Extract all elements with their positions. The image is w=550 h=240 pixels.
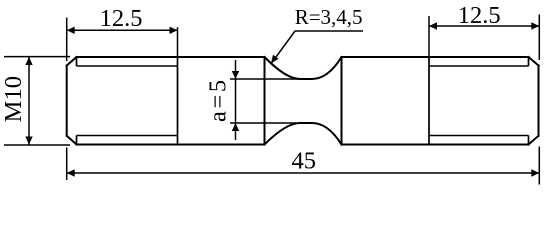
thread root lines — [77, 66, 529, 136]
wire top edge left of neck — [77, 56, 265, 58]
left top chamfer — [67, 57, 77, 66]
arrow 12.5 right-left — [429, 22, 437, 29]
left end face — [66, 66, 68, 136]
left chamfer edge bottom — [76, 136, 78, 145]
svg-text:12.5: 12.5 — [100, 5, 143, 32]
arrow 45 left — [67, 169, 75, 176]
neck right shoulder line — [341, 57, 343, 145]
neck left shoulder line — [264, 57, 266, 145]
wire top edge right of neck — [342, 56, 529, 58]
wire bottom edge right of neck — [342, 144, 529, 146]
right end face — [538, 66, 540, 136]
leader shelf under R text — [295, 30, 363, 32]
a=5 ext tick top — [230, 78, 300, 80]
svg-text:12.5: 12.5 — [458, 2, 501, 29]
a=5 ext tick bottom — [230, 122, 300, 124]
M10 ext line bottom — [4, 144, 70, 146]
stud body outline — [67, 57, 539, 145]
M10 dim line — [28, 57, 30, 145]
arrow 12.5 left-left — [67, 27, 75, 34]
dimension and extension lines — [4, 15, 539, 185]
leader arrowhead R — [271, 55, 279, 64]
leader line R — [272, 31, 295, 63]
45 ext line left — [66, 148, 68, 181]
right thread root top — [429, 65, 529, 67]
M10 ext line top — [4, 56, 70, 58]
right chamfer edge top — [528, 57, 530, 66]
45 ext line right — [538, 147, 540, 185]
wire bottom edge left of neck — [77, 144, 265, 146]
dim line 12.5 left — [67, 29, 178, 31]
neck top arc — [265, 57, 342, 79]
arrow M10 top — [25, 57, 32, 65]
arrow 12.5 right-right — [531, 22, 539, 29]
left bottom chamfer — [67, 136, 77, 145]
arrowheads — [25, 22, 539, 176]
left thread root top — [77, 65, 178, 67]
right bottom chamfer — [529, 136, 539, 145]
ext line left tip up — [66, 18, 68, 61]
left thread runout line — [177, 57, 179, 145]
left thread root bottom — [77, 135, 178, 137]
ext line right thread boundary up — [428, 16, 430, 57]
right top chamfer — [529, 57, 539, 66]
right chamfer edge bottom — [528, 136, 530, 145]
svg-text:R=3,4,5: R=3,4,5 — [295, 5, 363, 29]
arrow a=5 top (points down) — [232, 71, 239, 79]
svg-text:M10: M10 — [0, 76, 27, 122]
ext line left thread boundary up — [177, 27, 179, 57]
dim line 12.5 right — [429, 25, 539, 27]
svg-text:45: 45 — [291, 148, 316, 175]
right thread root bottom — [429, 135, 529, 137]
arrow a=5 bottom (points up) — [232, 123, 239, 131]
arrow 12.5 left-right — [170, 27, 178, 34]
neck bottom arc — [265, 123, 342, 145]
left chamfer edge top — [76, 57, 78, 66]
dim line 45 — [67, 172, 540, 174]
arrow 45 right — [531, 169, 539, 176]
right thread runout line — [428, 57, 430, 145]
arrow M10 bottom — [25, 137, 32, 145]
ext line right tip up — [538, 15, 540, 61]
a=5 dim line — [235, 60, 237, 140]
svg-text:a=5: a=5 — [205, 77, 232, 122]
